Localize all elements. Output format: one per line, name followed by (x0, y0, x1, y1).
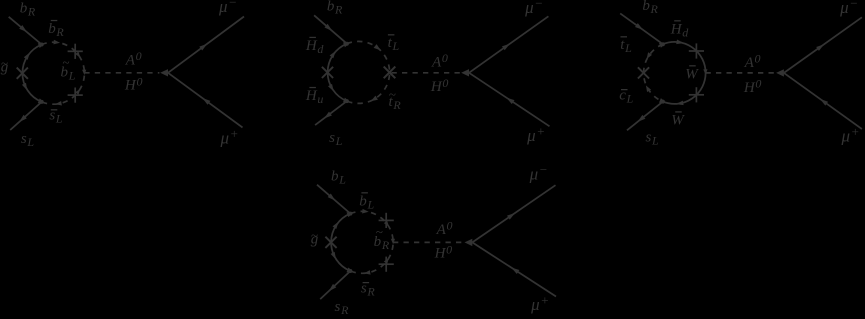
svg-text:~: ~ (389, 87, 396, 102)
svg-text:~: ~ (311, 228, 318, 243)
svg-text:~: ~ (376, 224, 383, 239)
svg-text:bR: bR (327, 0, 343, 17)
svg-text:~: ~ (1, 56, 8, 71)
svg-text:W: W (671, 112, 685, 128)
svg-text:~: ~ (62, 55, 69, 70)
svg-text:W: W (685, 66, 699, 82)
svg-text:bR: bR (642, 0, 658, 16)
